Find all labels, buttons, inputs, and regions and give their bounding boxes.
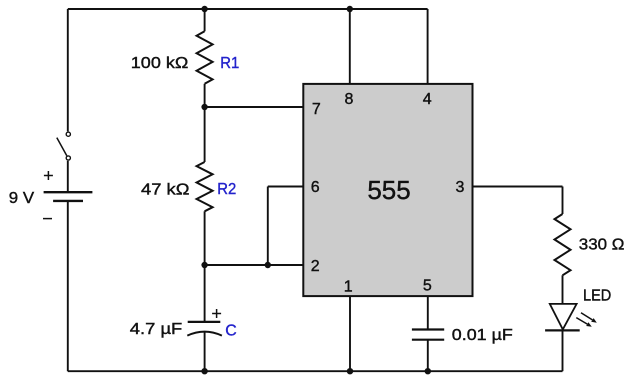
wire R3 to LED <box>562 275 564 304</box>
svg-text:4.7 µF: 4.7 µF <box>130 321 183 338</box>
svg-text:7: 7 <box>312 101 321 118</box>
svg-text:R2: R2 <box>217 181 236 198</box>
node R2/C/pin2 <box>201 262 207 268</box>
resistor R3 330 <box>555 214 571 275</box>
label R1 <box>220 55 239 72</box>
wire to pin 6 <box>268 186 304 188</box>
label R2 <box>217 181 236 198</box>
capacitor C plus plate <box>188 321 221 323</box>
wire C to bottom rail <box>204 331 206 371</box>
svg-text:C: C <box>225 323 237 340</box>
LED cathode bar <box>545 329 580 331</box>
wire node7 to R2 <box>204 107 206 162</box>
pin 2 label <box>311 258 320 275</box>
label 47 k&#937; <box>141 182 190 199</box>
wire R1 to node7 <box>204 84 206 107</box>
wire pin 4 <box>427 9 429 84</box>
node pin6 branch <box>265 262 271 268</box>
resistor R2 <box>197 162 213 211</box>
wire switch to battery <box>67 161 69 192</box>
wire top rail to R1 <box>204 9 206 31</box>
capacitor C2 0.01uF <box>412 330 444 340</box>
label 330 &#937; <box>579 237 625 254</box>
node C2 / bottom rail <box>425 368 431 374</box>
svg-text:6: 6 <box>311 179 320 196</box>
pin 4 label <box>423 91 432 108</box>
wire pin 5 <box>427 296 429 329</box>
wire top rail <box>68 8 428 10</box>
svg-text:R1: R1 <box>220 55 239 72</box>
svg-text:4: 4 <box>423 91 432 108</box>
wire node to pin 7 <box>205 106 304 108</box>
label 4.7 &#181;F <box>130 321 183 338</box>
pin 6 label <box>311 179 320 196</box>
capacitor C curved plate <box>187 332 222 336</box>
wire pin 1 <box>349 296 351 371</box>
svg-text:0.01 µF: 0.01 µF <box>452 327 513 344</box>
label 9 V <box>9 190 35 207</box>
node pin1 / bottom rail <box>347 368 353 374</box>
svg-text:5: 5 <box>423 278 432 295</box>
svg-text:2: 2 <box>311 258 320 275</box>
node R1/R2/pin7 <box>201 104 207 110</box>
svg-text:8: 8 <box>345 91 354 108</box>
label 100 k&#937; <box>131 55 189 72</box>
pin 1 label <box>344 279 353 296</box>
svg-text:330 Ω: 330 Ω <box>579 237 625 254</box>
node top rail / pin8 <box>347 6 353 12</box>
svg-text:LED: LED <box>583 288 611 305</box>
label 0.01 &#181;F <box>452 327 513 344</box>
svg-text:555: 555 <box>367 177 410 205</box>
wire C2 to bottom rail <box>427 340 429 372</box>
LED light arrow 2 <box>576 318 592 327</box>
svg-text:1: 1 <box>344 279 353 296</box>
battery B1 9V <box>43 171 92 219</box>
capacitor C polarity + <box>212 309 221 318</box>
svg-text:3: 3 <box>455 179 464 196</box>
pin 5 label <box>423 278 432 295</box>
node top rail / R1 <box>201 6 207 12</box>
wire LED to bottom rail <box>562 330 564 371</box>
wire pin6 vertical <box>267 187 269 266</box>
svg-text:9 V: 9 V <box>9 190 35 207</box>
pin 7 label <box>312 101 321 118</box>
wire node2 to C <box>204 265 206 322</box>
pin 8 label <box>345 91 354 108</box>
label LED <box>583 288 611 305</box>
wire left from top rail to switch <box>67 9 69 131</box>
wire pin 3 <box>473 186 563 188</box>
wire pin 8 <box>349 9 351 84</box>
label 555 <box>367 177 410 205</box>
LED D1 triangle <box>550 304 577 330</box>
wire pin3 to R3 <box>562 187 564 215</box>
op-amp U1 555 body <box>303 84 472 296</box>
svg-text:47 kΩ: 47 kΩ <box>141 182 190 199</box>
LED light arrow 1 <box>581 313 597 323</box>
label C <box>225 323 237 340</box>
pin 3 label <box>455 179 464 196</box>
switch S1 <box>57 132 71 160</box>
wire node to pin 2 <box>205 264 304 266</box>
wire battery to bottom rail <box>67 202 69 371</box>
wire bottom rail <box>68 370 563 372</box>
resistor R1 <box>197 31 213 84</box>
svg-text:100 kΩ: 100 kΩ <box>131 55 189 72</box>
wire R2 to node2 <box>204 211 206 265</box>
node C / bottom rail <box>201 368 207 374</box>
